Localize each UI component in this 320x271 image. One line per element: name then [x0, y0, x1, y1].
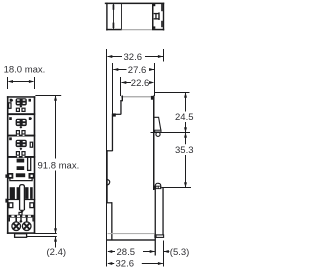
- corner square right: [29, 173, 35, 179]
- side view inner wall: [111, 202, 112, 240]
- side view latch hook: [155, 117, 162, 132]
- dim 27.6 right tick: [154, 63, 156, 96]
- svg-text:24.5: 24.5: [175, 112, 194, 123]
- relay pin slot 1: [17, 159, 25, 163]
- dim 27.6 left tick: [112, 63, 114, 114]
- dim 35.3 bottom extension: [162, 187, 192, 189]
- lever bar left outer: [10, 187, 15, 199]
- bottom center diamond: [19, 220, 22, 223]
- svg-text:28.5: 28.5: [117, 247, 136, 258]
- lever shelf line left: [7, 199, 19, 200]
- dim 5.3 arrow: [164, 250, 170, 253]
- top view right inner bar lower: [161, 21, 163, 27]
- side view step 1: [112, 113, 121, 116]
- top view H latch: [154, 12, 160, 20]
- side view back bump: [107, 179, 110, 185]
- front view outline: [7, 96, 35, 234]
- top view bottom gray segment: [122, 29, 152, 30]
- front view divider 2: [7, 135, 35, 137]
- mount hole right: [30, 203, 34, 208]
- top view inner line 1: [113, 4, 115, 29]
- dim 35.3 line: [184, 133, 187, 188]
- bottom screw left: [10, 220, 22, 232]
- left edge nub upper: [5, 174, 7, 177]
- dim 91.8 line: [54, 96, 57, 234]
- side view back edge lower: [106, 150, 107, 203]
- dim 2.4 extension upper: [35, 233, 57, 235]
- mount hole left: [9, 203, 13, 208]
- relay right window: [28, 157, 31, 170]
- side view bottom tab: [155, 235, 164, 238]
- unit3 screw blob: [16, 140, 27, 147]
- mid black bar: [16, 173, 25, 177]
- dim 32.6 top left tick / long extension: [106, 49, 108, 267]
- side view top gray edge: [121, 96, 151, 97]
- side view back edge mid: [112, 114, 113, 151]
- svg-text:91.8 max.: 91.8 max.: [38, 160, 80, 171]
- front view divider 3: [7, 156, 35, 158]
- lever bar right outer: [30, 187, 33, 199]
- bottom terminal stubs: [9, 218, 34, 222]
- dim 32.6 bottom line: [107, 262, 163, 265]
- dim 2.4 extension lower: [27, 236, 57, 238]
- dim 91.8 top extension: [35, 95, 61, 97]
- dim 22.6 left tick: [120, 77, 122, 96]
- bottom screw right: [20, 220, 32, 232]
- side view step 3: [107, 202, 113, 203]
- unit2 left mark: [9, 117, 12, 120]
- side view bottom edge: [106, 239, 155, 240]
- unit3 diamond: [20, 147, 23, 150]
- dim 32.6 top line: [107, 55, 163, 58]
- unit3 clamp left: [16, 152, 19, 156]
- side view back edge upper: [120, 96, 123, 115]
- top view inner line 2: [120, 4, 123, 29]
- top view latch wall: [152, 4, 155, 29]
- dim 24.5 line: [184, 93, 187, 133]
- side view rail hook cluster: [154, 183, 162, 189]
- side view channel left: [155, 189, 156, 256]
- side view latch curl: [156, 132, 160, 136]
- dim 24.5-35.3 mid extension: [151, 132, 191, 134]
- unit2 screw slots: [17, 120, 25, 125]
- unit1 diamond: [20, 105, 23, 108]
- side view channel right: [162, 188, 163, 235]
- side view gray inner line: [108, 233, 155, 234]
- left edge nub lower: [5, 199, 7, 203]
- unit2 clamp right: [22, 131, 25, 134]
- dim 27.6 line: [113, 68, 154, 71]
- unit1 screw blob: [16, 98, 27, 105]
- lever shelf line right: [24, 199, 35, 200]
- lever bar left inner: [17, 187, 20, 199]
- corner square left: [7, 173, 13, 179]
- lever tip: [20, 210, 25, 214]
- unit1 screw slots: [17, 99, 25, 104]
- unit1 clamp left: [16, 108, 19, 111]
- relay pin slot 2: [17, 166, 25, 170]
- divider3 clamp dents: [17, 156, 25, 158]
- svg-text:(2.4): (2.4): [47, 247, 67, 258]
- release lever slot: [20, 185, 25, 211]
- dim 22.6 line: [121, 81, 154, 84]
- side view step 2: [107, 150, 113, 151]
- bottom stub: [19, 212, 22, 215]
- dim 28.5 line: [107, 250, 155, 253]
- svg-text:27.6: 27.6: [128, 65, 147, 76]
- side view front face: [153, 96, 155, 191]
- unit3 left mark: [9, 137, 12, 140]
- dim 32.6 bottom right tick: [163, 241, 165, 267]
- side view top extension: [155, 92, 190, 94]
- bottom terminal bar: [9, 215, 34, 218]
- svg-text:18.0 max.: 18.0 max.: [4, 65, 46, 76]
- unit1 left open rect: [9, 103, 11, 109]
- svg-text:32.6: 32.6: [116, 259, 135, 270]
- svg-text:(5.3): (5.3): [170, 247, 190, 258]
- U bottom line: [10, 178, 32, 181]
- unit2 diamond: [20, 126, 23, 129]
- front bottom tab: [15, 234, 27, 238]
- unit1 right square mark: [29, 99, 32, 102]
- top view right inner bar upper: [161, 4, 163, 11]
- front view divider 1: [7, 113, 35, 115]
- unit1 clamp right: [22, 108, 25, 111]
- unit2 clamp left: [16, 131, 19, 134]
- unit3 clamp right: [22, 152, 25, 156]
- svg-text:32.6: 32.6: [124, 52, 143, 63]
- unit2 screw blob: [16, 119, 27, 126]
- unit3 screw slots: [17, 141, 25, 146]
- dim 32.6 top right tick: [163, 49, 165, 62]
- dim 18.0 ticks: [8, 77, 35, 89]
- unit1 left arrow mark: [10, 99, 14, 102]
- top view outline: [105, 3, 164, 31]
- divider2 clamp dents: [17, 135, 25, 136]
- unit3 right open rect: [30, 142, 32, 147]
- svg-text:22.6: 22.6: [131, 78, 150, 89]
- side view corner block: [151, 96, 154, 100]
- dim 18.0 arrow line: [8, 80, 34, 83]
- dim 91.8 label: [37, 160, 79, 172]
- svg-text:35.3: 35.3: [175, 145, 194, 156]
- lever bar right inner: [25, 187, 28, 199]
- dim 2.4 arrow: [54, 237, 57, 248]
- unit2 right arrow mark: [29, 117, 32, 120]
